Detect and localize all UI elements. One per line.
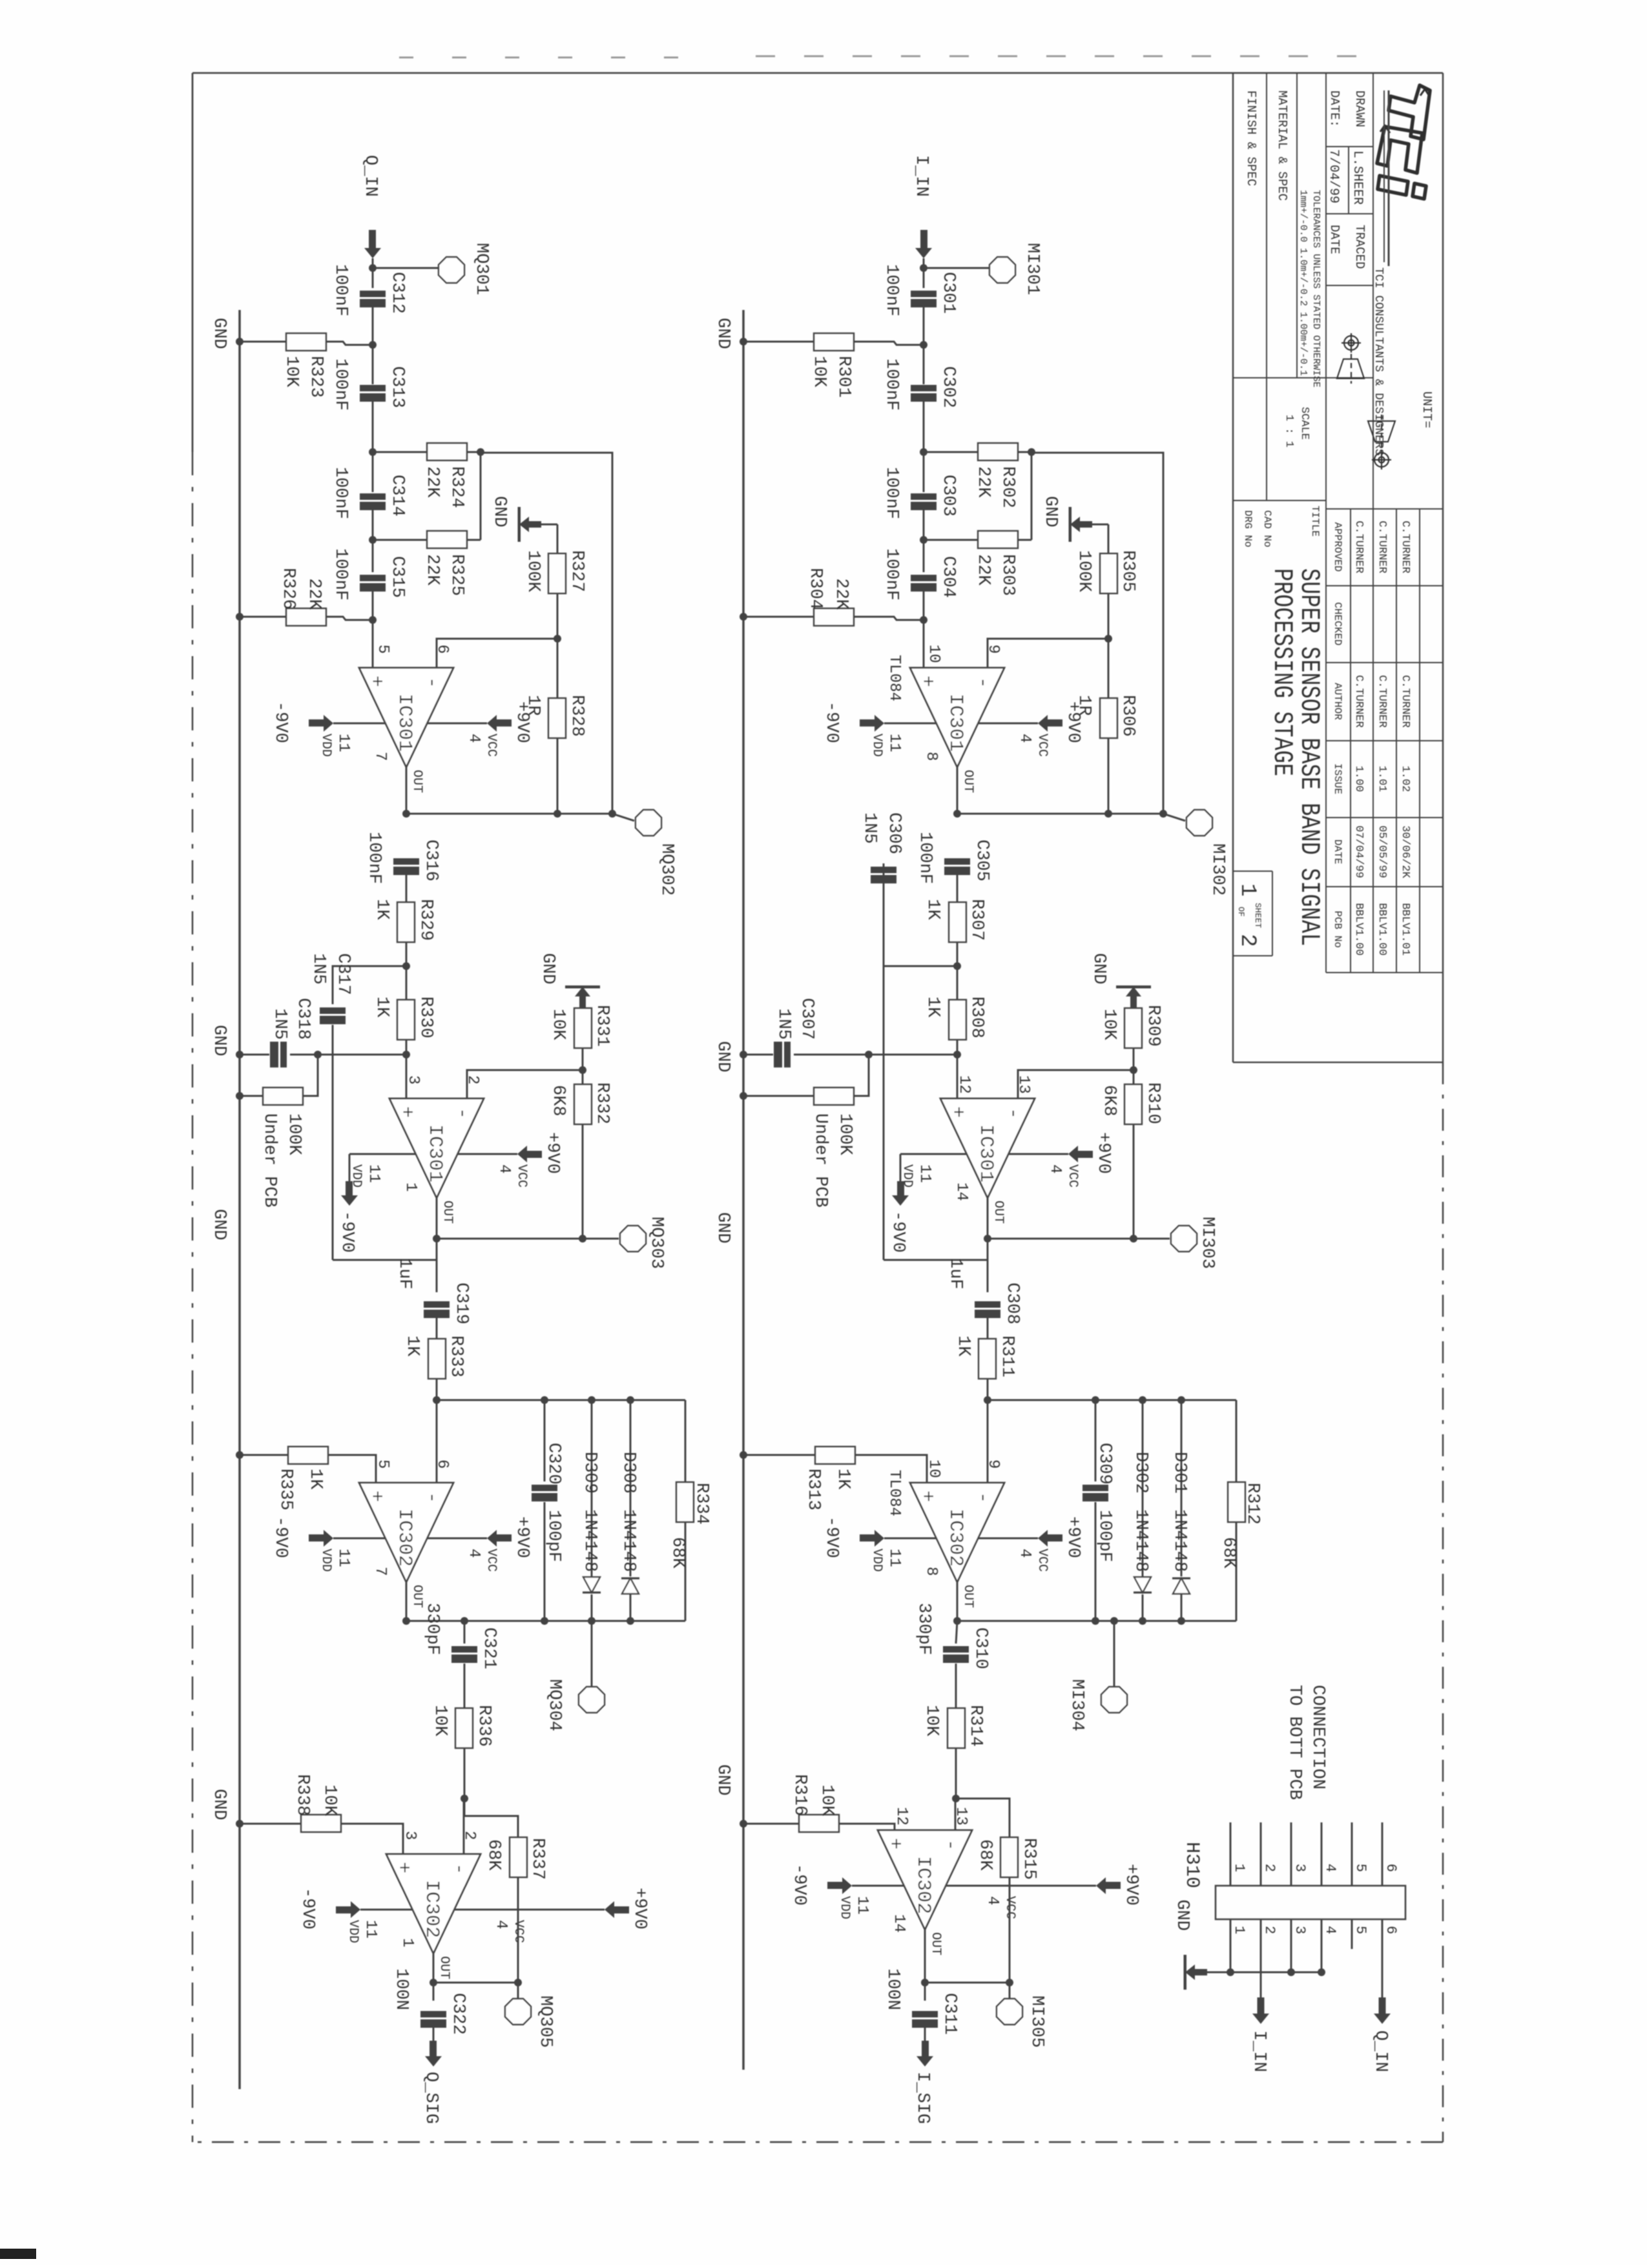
svg-text:C310: C310 [971,1627,990,1669]
capacitor C303 100nF [911,493,937,500]
resistor R310 6K8 [1133,1070,1135,1084]
svg-text:C320: C320 [544,1443,563,1485]
connector MQ305 [517,1983,519,1998]
resistor R311 1K [987,1318,989,1339]
svg-text:TL084: TL084 [886,1470,903,1516]
svg-text:IC302: IC302 [912,1856,934,1914]
svg-text:TOLERANCES UNLESS STATED OTHER: TOLERANCES UNLESS STATED OTHERWISE [1310,190,1321,387]
svg-text:Q_IN: Q_IN [360,155,380,197]
svg-text:R331: R331 [592,1005,612,1047]
ground [1116,985,1151,989]
svg-text:100nF: 100nF [882,358,901,411]
svg-text:11: 11 [916,1164,933,1183]
svg-text:BBLV1.01: BBLV1.01 [1399,903,1411,956]
svg-text:OUT: OUT [960,1585,975,1608]
svg-text:14: 14 [890,1914,907,1933]
svg-text:VCC: VCC [514,1164,529,1188]
svg-text:VDD: VDD [346,1920,360,1943]
svg-text:10K: 10K [809,356,829,387]
node J2 [402,962,410,970]
svg-text:MQ302: MQ302 [657,843,676,896]
svg-text:5: 5 [374,644,391,654]
node outB [984,1235,991,1242]
svg-text:IC302: IC302 [944,1509,966,1567]
svg-text:Q_SIG: Q_SIG [421,2072,440,2124]
capacitor C310 330pF [943,1646,969,1653]
revision table grid [1419,509,1420,973]
node shunt gnd [740,1051,747,1058]
svg-text:6: 6 [433,1459,451,1469]
svg-text:IC302: IC302 [420,1880,442,1938]
wire to connector oct1 [373,267,438,269]
op-amp IC302 A [359,1483,453,1582]
svg-text:I_IN: I_IN [911,155,931,197]
node r13 gnd [740,1451,747,1459]
resistor R308 1K [949,1000,966,1040]
svg-text:C316: C316 [421,840,440,881]
svg-text:100nF: 100nF [882,264,901,316]
svg-text:1N5: 1N5 [270,1008,289,1040]
svg-text:+: + [916,1490,938,1502]
svg-text:-: - [420,1492,442,1503]
svg-text:SHEET: SHEET [1253,903,1263,928]
svg-text:+: + [365,675,387,687]
svg-text:05/05/99: 05/05/99 [1376,825,1388,878]
svg-text:-9V0: -9V0 [337,1211,357,1253]
svg-text:C308: C308 [1002,1283,1022,1325]
node J5 [1130,1066,1137,1074]
svg-text:6K8: 6K8 [1099,1085,1119,1117]
svg-text:11: 11 [362,1920,379,1939]
svg-text:1K: 1K [923,899,942,920]
svg-text:8: 8 [922,752,940,761]
node r3 tap [920,536,927,544]
node r2 tap [369,448,377,456]
wire c4-opamp [923,592,925,668]
svg-text:IC301: IC301 [393,694,415,752]
svg-text:R302: R302 [998,466,1017,508]
svg-text:10K: 10K [817,1784,836,1816]
svg-text:1N4148: 1N4148 [580,1509,599,1572]
svg-text:5: 5 [1352,1926,1369,1934]
svg-text:C313: C313 [388,366,407,408]
svg-text:12: 12 [955,1075,973,1094]
diode D301 1N4148 [1181,1400,1183,1576]
svg-text:100N: 100N [883,1968,902,2010]
svg-text:4: 4 [1016,1549,1033,1558]
node J7 [952,1795,960,1802]
resistor R338 10K [341,1824,403,1854]
resistor R313 1K [855,1455,927,1483]
wire -inA riser [437,639,557,668]
svg-text:I_IN: I_IN [1249,2030,1269,2072]
svg-text:R309: R309 [1143,1005,1163,1047]
svg-text:2: 2 [1261,1864,1278,1872]
wire c3-c4 [372,510,374,572]
svg-text:100nF: 100nF [882,467,901,519]
node input tap [369,264,377,272]
svg-text:R332: R332 [592,1082,612,1124]
ground [565,985,600,989]
svg-text:10: 10 [925,644,942,663]
svg-text:+9V0: +9V0 [512,1516,532,1558]
svg-text:4: 4 [465,734,482,743]
net Q_IN arrow [1374,2014,1391,2024]
svg-text:GND: GND [1089,953,1108,985]
svg-text:100N: 100N [391,1968,411,2010]
svg-text:07/04/99: 07/04/99 [1352,825,1365,878]
pin 1 H310 left stub [1230,1822,1232,1886]
wire c5-r7 [957,875,958,902]
svg-text:C319: C319 [451,1283,471,1325]
svg-text:D302: D302 [1131,1452,1150,1494]
node r1 tap [369,341,377,349]
wire -inB riser [1018,1070,1134,1098]
op-amp IC301 B [940,1098,1035,1198]
capacitor C311 100N [912,2011,938,2017]
svg-text:8: 8 [922,1567,940,1576]
pin 4 H310 left stub [1321,1822,1323,1886]
svg-text:C304: C304 [938,556,958,598]
svg-text:R307: R307 [967,899,986,941]
ground [1092,524,1108,526]
svg-text:-: - [971,1492,993,1503]
svg-text:-: - [971,677,993,688]
connector MI304 [1110,1617,1118,1625]
svg-text:5: 5 [1352,1864,1369,1872]
svg-text:GND: GND [209,1025,229,1057]
node outA [402,810,410,818]
svg-text:R335: R335 [276,1469,295,1510]
wire c1-c2 [372,307,374,384]
wire c5-r7 [406,875,408,902]
svg-text:10K: 10K [320,1784,339,1816]
svg-text:DATE: DATE [1327,225,1341,254]
node gnd pin4 [1318,1968,1325,1976]
op-amp IC301 A [359,668,453,767]
wire c3-c4 [923,510,925,572]
svg-text:VDD: VDD [837,1896,852,1919]
svg-text:30/06/2K: 30/06/2K [1399,825,1411,878]
pin 5 H310 left stub [1351,1822,1353,1886]
resistor R323 10K [326,342,373,345]
svg-text:C.TURNER: C.TURNER [1352,521,1365,573]
svg-text:+: + [392,1862,414,1873]
svg-text:TO BOTT PCB: TO BOTT PCB [1285,1685,1304,1800]
resistor 100K 100K Under PCB [854,1055,869,1096]
svg-text:10K: 10K [548,1009,568,1040]
svg-text:11: 11 [335,1549,352,1567]
capacitor C314 100nF [360,493,386,500]
node r13 gnd [236,1451,243,1459]
svg-text:L.SHEER: L.SHEER [1350,150,1365,205]
svg-text:4: 4 [984,1896,1001,1905]
pin 2 H310 right stub [1260,1919,1262,1949]
svg-text:4: 4 [465,1549,482,1558]
svg-text:7: 7 [371,1567,389,1576]
svg-text:2: 2 [461,1831,478,1840]
svg-text:SUPER SENSOR BASE BAND SIGNAL: SUPER SENSOR BASE BAND SIGNAL [1294,568,1325,946]
svg-text:1R: 1R [1074,695,1093,716]
svg-text:100nF: 100nF [331,548,350,601]
node fb4 [1006,1979,1013,1986]
svg-text:GND: GND [713,1041,732,1073]
resistor R334 68K [685,1400,687,1482]
resistor R327 100K [557,524,559,553]
svg-text:AUTHOR: AUTHOR [1332,683,1343,720]
svg-text:100pF: 100pF [544,1510,563,1562]
svg-text:100nF: 100nF [331,264,350,316]
resistor 100K 100K Under PCB [303,1055,318,1096]
svg-text:MATERIAL & SPEC: MATERIAL & SPEC [1275,90,1289,201]
svg-text:1K: 1K [953,1335,973,1357]
svg-text:GND: GND [538,953,557,985]
svg-text:C.TURNER: C.TURNER [1352,675,1365,728]
node J3 [953,1051,961,1058]
resistor R307 1K [949,902,966,942]
page edge artifact dashes [375,56,1356,57]
ground [541,524,557,526]
resistor R302 22K [924,451,978,453]
svg-text:7/04/99: 7/04/99 [1326,149,1341,203]
svg-text:1: 1 [1231,1864,1247,1872]
node J7 [461,1795,468,1802]
svg-text:4: 4 [495,1164,513,1173]
svg-text:1K: 1K [923,996,942,1018]
svg-text:1N4148: 1N4148 [1170,1509,1189,1572]
svg-text:11: 11 [853,1896,871,1915]
projection target symbol A [1337,333,1364,384]
svg-text:VCC: VCC [1035,1549,1050,1572]
wire H310 gnd rail [1195,1972,1321,1974]
svg-text:GND: GND [209,1789,229,1820]
capacitor C302 100nF [911,385,937,391]
svg-text:R306: R306 [1118,695,1137,737]
svg-text:CHECKED: CHECKED [1332,602,1343,645]
wire out3 [957,1582,958,1621]
node 100K branch [865,1051,873,1058]
svg-text:C315: C315 [388,556,407,598]
node r16 gnd [740,1820,747,1828]
svg-text:1N5: 1N5 [860,812,879,844]
svg-text:OUT: OUT [440,1201,455,1224]
node fb yb [1159,810,1167,818]
ground [1184,1955,1187,1990]
svg-text:C311: C311 [940,1993,959,2035]
resistor R332 6K8 [582,1070,584,1084]
pin 4 H310 right stub [1321,1919,1323,1972]
wire input [923,258,925,288]
resistor R306 1R [1108,639,1110,698]
svg-text:C321: C321 [479,1627,499,1669]
svg-text:Under PCB: Under PCB [260,1113,279,1208]
svg-text:OUT: OUT [928,1932,943,1955]
node r4 gnd [236,613,243,621]
wire fb4 riser [925,1982,1010,1984]
connector MQ302 [612,814,634,821]
svg-text:C318: C318 [293,998,313,1040]
svg-text:1uF: 1uF [395,1258,414,1290]
svg-text:-: - [1002,1108,1024,1119]
svg-text:VDD: VDD [349,1164,364,1188]
capacitor C318 1N5 shunt [290,1054,406,1056]
svg-text:6: 6 [1383,1926,1399,1934]
capacitor C315 100nF [360,575,386,581]
wire -inA riser [988,639,1108,668]
svg-text:PROCESSING STAGE: PROCESSING STAGE [1267,568,1298,776]
resistor R326 22K [326,617,373,620]
svg-text:1.01: 1.01 [1376,766,1388,792]
wire out3 [406,1582,408,1621]
svg-text:GND: GND [1172,1899,1192,1931]
svg-text:C306: C306 [884,812,904,854]
svg-text:MQ303: MQ303 [647,1217,666,1269]
node N [433,1396,440,1404]
svg-text:+: + [884,1838,906,1850]
svg-text:GND: GND [713,318,732,349]
svg-text:DRAWN: DRAWN [1352,90,1367,127]
svg-text:2: 2 [1235,934,1259,947]
connector MQ301 [439,257,464,283]
resistor R314 10K [948,1708,965,1748]
svg-text:13: 13 [952,1807,969,1826]
svg-text:SCALE: SCALE [1298,407,1310,440]
wire J6-c9 [956,1621,957,1644]
resistor R337 68K feedback [464,1799,518,1837]
svg-text:1N4148: 1N4148 [1131,1509,1150,1572]
svg-text:1R: 1R [523,695,543,716]
wire J6-c9 [464,1621,466,1644]
svg-text:R334: R334 [692,1483,711,1525]
node r2 tap [920,448,927,456]
title area [1233,500,1326,501]
wire fb riser to yb rail [481,453,612,814]
capacitor C316 100nF [393,858,419,865]
pin 2 H310 left stub [1260,1822,1262,1886]
svg-text:VCC: VCC [484,1549,499,1572]
svg-text:14: 14 [953,1182,970,1201]
svg-text:1N5: 1N5 [309,953,328,985]
wire rail R [406,1620,685,1622]
node outB [433,1235,440,1242]
resistor R303 22K [924,539,978,541]
connector MI302 [1163,814,1185,821]
svg-text:C302: C302 [938,366,958,408]
node r3 tap [369,536,377,544]
node J2 [953,962,961,970]
svg-text:22K: 22K [973,554,993,586]
resistor R315 68K feedback [956,1799,1010,1837]
svg-text:2: 2 [1261,1926,1278,1934]
svg-text:GND: GND [713,1764,732,1796]
svg-text:R337: R337 [528,1838,547,1880]
svg-text:C312: C312 [388,272,407,314]
svg-text:22K: 22K [973,466,993,498]
svg-text:R314: R314 [966,1705,985,1747]
svg-text:R338: R338 [293,1774,312,1816]
node gnd pin3 [1287,1968,1295,1976]
svg-text:330pF: 330pF [422,1603,442,1655]
svg-text:3: 3 [1292,1926,1308,1934]
svg-text:C305: C305 [972,840,991,881]
wire c2-c3 [372,402,374,492]
node r1 tap [920,341,927,349]
svg-text:R305: R305 [1118,550,1137,592]
resistor R333 1K [436,1318,438,1339]
capacitor C301 100nF [911,291,937,297]
node r4 tap [920,616,927,624]
wire out4 [433,1954,435,2001]
resistor R324 22K [373,451,427,453]
connector MI303 [1171,1226,1197,1252]
node fb ya [1104,810,1112,818]
resistor R301 10K [854,342,924,345]
svg-text:1N5: 1N5 [774,1008,793,1040]
wire pin2 I_IN [1260,1949,1262,1997]
svg-text:OUT: OUT [991,1201,1006,1224]
svg-text:MI304: MI304 [1067,1679,1086,1731]
svg-text:3: 3 [1292,1864,1308,1872]
svg-text:-: - [448,1863,470,1875]
pin 3 H310 left stub [1290,1822,1292,1886]
wire rail L [988,1399,1236,1401]
node fb4 [514,1979,522,1986]
svg-text:-: - [451,1108,473,1119]
svg-text:GND: GND [1041,496,1060,528]
svg-text:3: 3 [404,1075,422,1084]
svg-text:-: - [420,677,442,688]
node rail [1028,448,1035,456]
node gnd pin1 [1227,1968,1234,1976]
svg-text:22K: 22K [304,578,324,610]
svg-text:1K: 1K [402,1335,422,1357]
resistor R305 100K [1108,524,1110,553]
svg-text:R313: R313 [803,1469,823,1510]
svg-text:R301: R301 [834,356,853,398]
capacitor C319 1uF [436,1239,438,1292]
svg-text:22K: 22K [422,554,442,586]
pin 5 H310 right stub [1351,1919,1353,1949]
svg-text:1K: 1K [372,899,391,920]
svg-text:C307: C307 [797,998,816,1040]
diode D302 1N4148 [1142,1400,1144,1576]
svg-text:1.02: 1.02 [1399,766,1411,792]
svg-text:-9V0: -9V0 [271,701,290,743]
svg-text:100K: 100K [284,1113,304,1156]
net I_IN arrow [1252,2014,1269,2024]
svg-text:C317: C317 [333,953,353,995]
svg-text:1 : 1: 1 : 1 [1283,415,1295,448]
svg-text:11: 11 [886,1549,903,1567]
svg-text:12: 12 [893,1807,910,1826]
capacitor C322 100N [420,2011,446,2017]
svg-text:R308: R308 [967,996,986,1038]
svg-text:C309: C309 [1095,1443,1114,1485]
resistor R329 1K [397,902,415,942]
wire GND bus Q [238,310,240,2089]
op-amp IC302 A [910,1483,1004,1582]
svg-text:C322: C322 [448,1993,468,2035]
node fbA [1104,635,1112,643]
svg-text:OUT: OUT [437,1956,451,1979]
svg-text:11: 11 [886,734,903,752]
svg-text:R329: R329 [416,899,435,941]
svg-text:GND: GND [209,1209,229,1241]
svg-text:VCC: VCC [1065,1164,1080,1188]
svg-text:+: + [946,1106,968,1118]
capacitor C309 100pF [1095,1400,1097,1481]
node 100K gnd [740,1092,747,1100]
